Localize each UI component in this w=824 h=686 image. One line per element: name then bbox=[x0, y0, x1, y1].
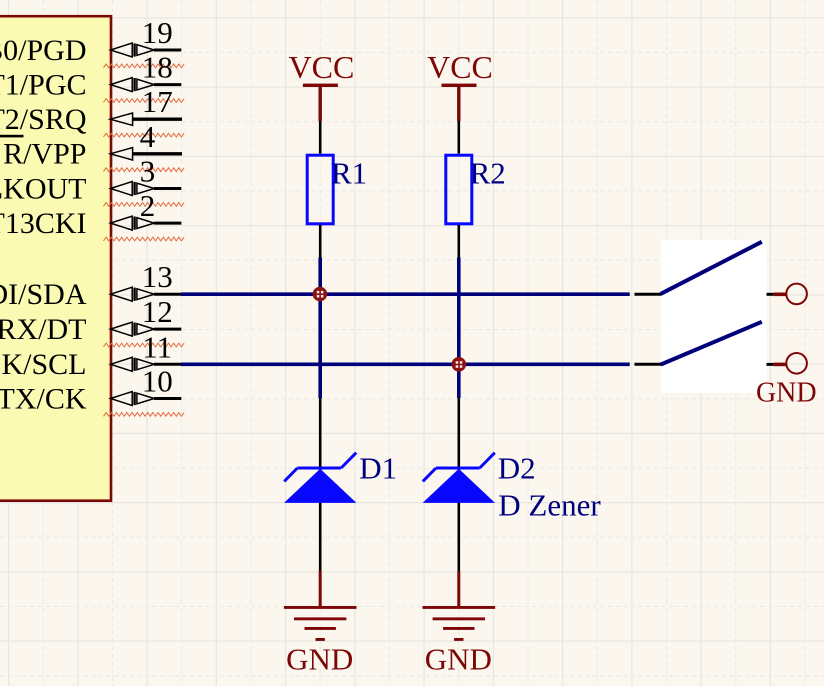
pin 2 (T13CKI) bbox=[0, 188, 181, 240]
svg-text:CK/SCL: CK/SCL bbox=[0, 348, 87, 381]
zener diode D1 bbox=[284, 453, 356, 503]
compile-error squiggle under pin at y=50.0 bbox=[104, 64, 185, 68]
IC U1 body bbox=[0, 16, 111, 501]
svg-text:T2/SRQ: T2/SRQ bbox=[0, 103, 87, 136]
svg-text:R2: R2 bbox=[470, 156, 506, 191]
switch right pin top bbox=[767, 293, 774, 296]
pin 17 (T2/SRQ) bbox=[0, 84, 182, 136]
diode pin line bbox=[457, 398, 460, 571]
switch contact circle bottom bbox=[786, 353, 807, 374]
svg-text:R/VPP: R/VPP bbox=[3, 138, 86, 171]
switch pin stub left top bbox=[635, 293, 662, 296]
wire SCL net (pin 11 to switch) bbox=[181, 362, 630, 366]
compile-error squiggle under pin at y=153.8 bbox=[104, 168, 185, 172]
pin below R2 bbox=[457, 225, 460, 258]
wire VCC to R2 bbox=[457, 121, 460, 154]
MCLR overline bbox=[0, 135, 24, 138]
svg-text:18: 18 bbox=[142, 50, 173, 85]
svg-text:2: 2 bbox=[140, 188, 156, 223]
pin 11 (CK/SCL) bbox=[0, 329, 181, 381]
pin 18 (T1/PGC) bbox=[0, 50, 181, 102]
pin 4 (R/VPP) bbox=[3, 119, 182, 171]
svg-text:D2: D2 bbox=[498, 451, 536, 486]
ground symbol below D2 bbox=[423, 571, 496, 641]
VCC power port (R1 column) bbox=[289, 49, 355, 121]
svg-text:B0/PGD: B0/PGD bbox=[0, 34, 87, 67]
diode pin line bbox=[319, 398, 322, 571]
svg-text:R1: R1 bbox=[331, 156, 367, 191]
svg-text:11: 11 bbox=[142, 329, 172, 364]
compile-error squiggle under pin at y=223.1 bbox=[104, 237, 185, 241]
ground symbol below D1 bbox=[284, 571, 357, 641]
wire SDA net (pin 13 to switch) bbox=[181, 292, 630, 296]
compile-error squiggle under pin at y=84.6 bbox=[104, 99, 185, 103]
pin 12 (RX/DT) bbox=[0, 294, 181, 346]
switch throw top bbox=[661, 242, 762, 294]
svg-text:13: 13 bbox=[142, 259, 173, 294]
svg-text:TX/CK: TX/CK bbox=[0, 382, 87, 415]
switch pin stub left bottom bbox=[635, 363, 662, 366]
svg-text:VCC: VCC bbox=[427, 49, 493, 85]
svg-text:D Zener: D Zener bbox=[498, 487, 601, 522]
compile-error squiggle under pin at y=329.1 bbox=[104, 343, 185, 347]
svg-text:12: 12 bbox=[142, 294, 173, 329]
vertical wire R1 to D1 bbox=[318, 258, 322, 399]
svg-text:DI/SDA: DI/SDA bbox=[0, 278, 87, 311]
svg-text:GND: GND bbox=[286, 641, 353, 676]
pin 10 (TX/CK) bbox=[0, 364, 181, 416]
pin 3 (CLKOUT) bbox=[0, 154, 181, 206]
svg-text:19: 19 bbox=[142, 15, 173, 50]
vertical wire R2 to D2 bbox=[457, 258, 461, 399]
zener diode D2 bbox=[423, 453, 495, 503]
svg-text:VCC: VCC bbox=[289, 49, 355, 85]
junction (SCL / R2 column) bbox=[452, 357, 467, 372]
svg-text:RX/DT: RX/DT bbox=[0, 313, 87, 346]
switch S1 body (white) bbox=[661, 240, 767, 393]
compile-error squiggle under pin at y=188.5 bbox=[104, 203, 185, 207]
svg-text:CLKOUT: CLKOUT bbox=[0, 172, 87, 205]
VCC power port (R2 column) bbox=[427, 49, 493, 121]
svg-text:10: 10 bbox=[142, 364, 173, 399]
svg-text:T1/PGC: T1/PGC bbox=[0, 69, 87, 102]
svg-text:GND: GND bbox=[756, 377, 817, 408]
svg-text:D1: D1 bbox=[359, 451, 397, 486]
junction (SDA / R1 column) bbox=[313, 287, 328, 302]
resistor R1 bbox=[307, 155, 367, 224]
pin below R1 bbox=[319, 225, 322, 258]
switch contact circle top bbox=[786, 284, 807, 305]
switch contact stub bottom bbox=[774, 363, 786, 367]
switch contact stub top bbox=[774, 292, 786, 296]
pin 13 (DI/SDA) bbox=[0, 259, 181, 311]
wire VCC to R1 bbox=[319, 121, 322, 154]
resistor R2 bbox=[446, 155, 506, 224]
svg-text:GND: GND bbox=[425, 641, 492, 676]
pin 19 (B0/PGD) bbox=[0, 15, 181, 67]
svg-text:3: 3 bbox=[140, 154, 156, 189]
switch right pin bottom bbox=[767, 363, 774, 366]
switch throw bottom bbox=[661, 322, 762, 365]
svg-text:T13CKI: T13CKI bbox=[0, 207, 87, 240]
svg-text:4: 4 bbox=[140, 119, 156, 154]
compile-error squiggle under pin at y=119.2 bbox=[104, 133, 185, 137]
compile-error squiggle under pin at y=398.5 bbox=[104, 413, 185, 417]
svg-text:17: 17 bbox=[142, 84, 173, 119]
